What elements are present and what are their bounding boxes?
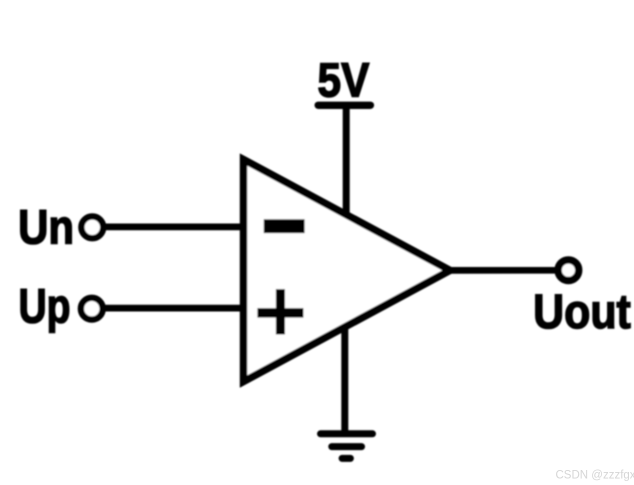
minus sign (inverting input marker) [264,219,305,233]
op-amp U1 triangle [244,160,451,382]
svg-text:Up: Up [18,280,70,334]
ground symbol bar 2 [332,443,362,450]
terminal Uout (open circle) [558,260,579,281]
terminal Up (open circle) [81,298,103,320]
power supply 5V bar [318,102,370,109]
svg-text:5V: 5V [318,53,370,107]
ground symbol bar 1 [321,430,373,437]
svg-text:CSDN @zzzfgx: CSDN @zzzfgx [556,469,634,481]
wire op-amp bottom to ground [341,325,348,434]
plus sign (non-inverting input marker) [257,308,303,317]
svg-text:Un: Un [18,200,74,254]
wire 5V supply to op-amp top [343,105,350,218]
svg-text:Uout: Uout [533,285,631,339]
wire op-amp output to Uout terminal [449,267,556,274]
ground symbol bar 3 [342,455,350,462]
wire Un input to inverting input [103,224,247,231]
wire Up input to non-inverting input [103,305,247,312]
terminal Un (open circle) [81,216,103,238]
